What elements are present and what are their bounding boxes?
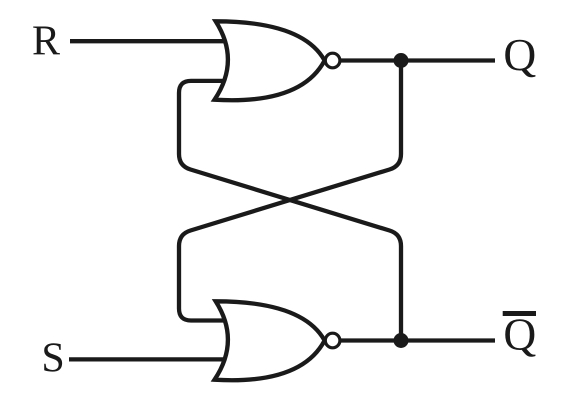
svg-text:Q: Q xyxy=(503,29,536,80)
NOR gate U2 output bubble xyxy=(325,333,340,348)
wire R input xyxy=(70,39,230,43)
node Q junction dot xyxy=(394,53,409,68)
wire S input xyxy=(69,357,230,361)
wire feedback from node Q down-cross to lower NOR input xyxy=(179,61,401,321)
svg-text:S: S xyxy=(41,336,64,382)
wire Q-bar output (bottom NOR to Q-bar) xyxy=(340,338,495,342)
node Q-bar junction dot xyxy=(394,333,409,348)
svg-text:Q: Q xyxy=(503,309,536,360)
overline of Q-bar xyxy=(503,311,536,316)
NOR gate U1 (top) body xyxy=(215,21,325,100)
wire feedback from node Q-bar up-cross to upper NOR input xyxy=(179,81,401,341)
NOR gate U2 (bottom) body xyxy=(215,301,325,380)
wire Q output (top NOR to Q) xyxy=(340,58,495,62)
NOR gate U1 output bubble xyxy=(325,53,340,68)
svg-text:R: R xyxy=(32,19,60,65)
